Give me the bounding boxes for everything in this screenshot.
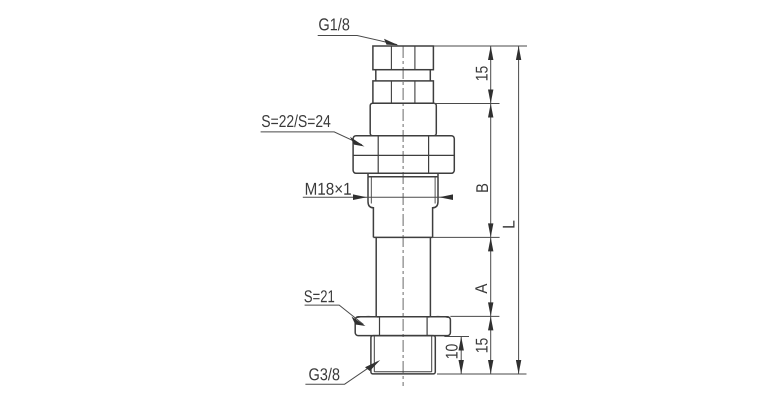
centerline bbox=[402, 46, 404, 386]
arrowhead S=21 bbox=[352, 317, 366, 327]
extension line y=103.5 bbox=[433, 103, 500, 105]
label G3/8 bbox=[309, 368, 339, 381]
arrowhead G1/8 bbox=[384, 39, 399, 46]
extension line y=237.4 bbox=[433, 236, 500, 238]
G1/8 thread block lower bbox=[373, 81, 434, 103]
dim line L (x=518.6) bbox=[518, 46, 520, 374]
shaft bbox=[376, 237, 430, 316]
label G1/8 bbox=[319, 18, 349, 31]
arrowhead G3/8 bbox=[365, 360, 380, 371]
arrowhead S=22/S=24 bbox=[350, 137, 365, 147]
arrows dim 10 bbox=[459, 337, 464, 351]
arrowhead M18x1 left bbox=[353, 194, 367, 200]
extension line for 10 (y=336.5) bbox=[444, 336, 469, 338]
label S=21 bbox=[304, 290, 334, 302]
extension line bottom y=374 bbox=[437, 373, 527, 375]
hex nuts S=22/S=24 bbox=[353, 136, 454, 174]
extension line y=316.4 bbox=[450, 315, 499, 317]
label S=22/S=24 bbox=[262, 115, 330, 128]
dim text 10 bbox=[446, 344, 458, 358]
dim text A bbox=[475, 284, 487, 294]
hex nut S=21 bbox=[355, 316, 450, 335]
leader S=21 bbox=[305, 305, 364, 324]
G1/8 thread block upper bbox=[373, 46, 434, 70]
leader M18x1 dimension line bbox=[303, 196, 438, 198]
arrowhead M18x1 right bbox=[439, 194, 453, 200]
label M18x1 bbox=[306, 183, 351, 195]
arrows dim L bbox=[516, 46, 521, 60]
arrows dim B bbox=[488, 104, 493, 118]
dim text B bbox=[476, 184, 488, 192]
dim line 10 (x=461.2) bbox=[460, 337, 462, 375]
washer band under hex bbox=[368, 173, 438, 177]
leader G1/8 bbox=[318, 36, 397, 45]
arrows dim A bbox=[488, 237, 493, 251]
dim text 15 bottom bbox=[476, 338, 488, 352]
extension line top (y=46) bbox=[433, 45, 527, 47]
arrows dim 15 top bbox=[488, 46, 493, 60]
dim text 15 top bbox=[476, 66, 488, 80]
dim line 15/B/A/15 (x=490.7) bbox=[490, 46, 492, 374]
leader S=22/S=24 bbox=[261, 132, 362, 145]
leader G3/8 bbox=[305, 362, 377, 385]
G3/8 stub bbox=[371, 336, 435, 374]
leader M18x1 right arrow tail bbox=[438, 196, 452, 198]
relief groove bbox=[376, 70, 431, 81]
arrows dim 15 bottom bbox=[488, 316, 493, 330]
dim text L bbox=[503, 221, 515, 228]
shoulder collar bbox=[370, 103, 436, 136]
M18 thread section bbox=[368, 177, 438, 238]
step line at bottom of M18 section bbox=[373, 236, 432, 238]
